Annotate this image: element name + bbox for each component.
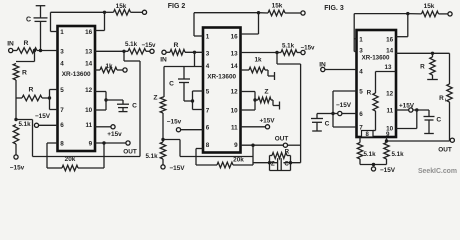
svg-text:4: 4	[60, 61, 64, 68]
svg-text:−15V: −15V	[169, 165, 185, 172]
svg-text:+15V: +15V	[259, 118, 275, 125]
svg-text:−15v: −15v	[10, 165, 25, 172]
wire pin 13	[95, 50, 126, 53]
network Z R C fig2	[270, 148, 291, 170]
svg-text:6: 6	[60, 122, 64, 129]
svg-text:Z: Z	[271, 160, 275, 167]
wire feedback top fig3	[354, 12, 409, 52]
resistor R internal U3	[367, 72, 396, 131]
svg-text:−15v: −15v	[142, 42, 156, 49]
svg-text:16: 16	[85, 29, 93, 36]
wire pin 8	[47, 143, 62, 168]
svg-text:9: 9	[386, 131, 390, 138]
capacitor C pin12	[117, 100, 137, 112]
op-amp IC U1 XR-13600	[58, 26, 96, 151]
svg-text:3: 3	[359, 47, 363, 54]
svg-text:10: 10	[85, 107, 93, 114]
resistor 5.1k pin9 fig3	[384, 137, 404, 165]
wire bias rail fig2	[163, 140, 253, 157]
watermark	[418, 168, 457, 175]
capacitor C left fig3	[311, 114, 333, 132]
terminal -15v	[10, 155, 25, 172]
svg-text:7: 7	[206, 108, 210, 115]
terminal +15v	[95, 125, 122, 138]
svg-text:R: R	[22, 70, 27, 77]
svg-text:12: 12	[231, 89, 239, 96]
terminal 15k	[142, 10, 146, 14]
svg-text:12: 12	[85, 87, 93, 94]
resistor R input fig2	[166, 42, 203, 55]
label FIG. 3	[324, 5, 344, 12]
svg-text:OUT: OUT	[275, 136, 289, 143]
svg-text:11: 11	[387, 108, 394, 115]
wire pins 5-7 bridge fig2	[191, 91, 203, 110]
svg-text:7: 7	[60, 107, 64, 114]
svg-text:XR-13600: XR-13600	[62, 71, 91, 78]
resistor 20k feedback	[62, 143, 104, 171]
wire feedback top fig2	[194, 11, 260, 36]
svg-text:14: 14	[386, 47, 394, 54]
U3 pin numbers right	[384, 36, 393, 138]
svg-text:i: i	[445, 97, 446, 102]
svg-text:10: 10	[231, 108, 239, 115]
svg-text:6: 6	[206, 125, 210, 132]
svg-text:OUT: OUT	[123, 149, 137, 156]
wire pin 10 fig3	[396, 110, 417, 129]
svg-text:−15v: −15v	[301, 45, 315, 52]
wire pin 9 output	[95, 141, 126, 144]
svg-text:XR-13600: XR-13600	[362, 55, 390, 62]
terminal -15V to pin 6	[34, 113, 57, 127]
terminal -15V pin6 fig3	[333, 102, 357, 116]
svg-text:8: 8	[206, 142, 210, 149]
svg-text:5: 5	[206, 89, 210, 96]
resistor 15k	[105, 3, 143, 15]
svg-text:5: 5	[60, 87, 64, 94]
svg-text:OUT: OUT	[438, 146, 452, 153]
resistor R input	[17, 40, 58, 53]
svg-text:5: 5	[359, 89, 363, 96]
svg-text:9: 9	[89, 141, 93, 148]
svg-text:5.1k: 5.1k	[125, 41, 138, 48]
svg-text:C: C	[325, 120, 330, 127]
terminal 15k fig3	[448, 12, 452, 16]
svg-text:9: 9	[234, 142, 238, 149]
svg-text:C: C	[169, 81, 174, 88]
svg-text:5.1k: 5.1k	[391, 151, 404, 158]
wire pin 14 fig3	[396, 52, 450, 55]
svg-text:−15V: −15V	[35, 113, 51, 120]
svg-text:13: 13	[85, 48, 93, 55]
wire pins 5-7 bridge	[50, 90, 58, 110]
wire pins 12-10 bridge	[95, 92, 123, 111]
resistor Z pin12 fig2	[255, 89, 280, 110]
pin 8 box U3	[362, 131, 374, 139]
svg-text:−15v: −15v	[167, 119, 182, 126]
svg-text:FIG. 3: FIG. 3	[324, 5, 344, 12]
svg-text:Z: Z	[264, 89, 268, 96]
terminal -15V lower fig2	[161, 165, 185, 172]
svg-text:R: R	[24, 40, 29, 47]
svg-text:5.1k: 5.1k	[18, 121, 31, 128]
node -15V bias	[14, 118, 17, 121]
resistor 1k	[95, 63, 123, 73]
svg-text:Z: Z	[153, 95, 157, 102]
U1 pin numbers right	[85, 29, 93, 148]
svg-text:FIG 2: FIG 2	[168, 3, 186, 10]
terminal -15v pin6 fig2	[167, 119, 203, 132]
input terminal IN	[7, 41, 17, 53]
svg-text:3: 3	[206, 50, 210, 57]
svg-text:14: 14	[231, 63, 239, 70]
svg-text:C: C	[284, 160, 289, 167]
terminal -15v pin13	[142, 42, 156, 54]
terminal 15k fig2	[301, 11, 305, 15]
capacitor C fig2	[169, 67, 192, 102]
resistor 5.1k pin13	[124, 41, 150, 54]
svg-text:6: 6	[359, 111, 363, 118]
svg-text:15k: 15k	[424, 3, 435, 10]
svg-text:R: R	[420, 63, 425, 70]
svg-text:−15V: −15V	[380, 167, 396, 174]
U2 pin numbers left	[206, 34, 210, 150]
svg-text:C: C	[436, 116, 441, 123]
svg-text:16: 16	[231, 34, 239, 41]
svg-text:13: 13	[231, 50, 239, 57]
svg-text:IN: IN	[7, 41, 14, 48]
resistor R vertical	[13, 64, 27, 120]
wire pins 5-7 runner fig3	[331, 91, 356, 127]
svg-text:+15v: +15v	[107, 131, 122, 138]
svg-text:C: C	[132, 102, 137, 109]
wire pin 9 OUT fig3	[387, 140, 450, 142]
svg-text:IN: IN	[160, 57, 167, 64]
resistor Ri runner fig3	[439, 53, 452, 141]
op-amp IC U2 XR-13600	[203, 28, 241, 153]
wire branch to R2	[16, 51, 35, 62]
wire pin 8 fig2	[196, 149, 217, 166]
resistor 15k fig3	[408, 3, 448, 17]
resistor 15k fig2	[259, 3, 301, 16]
resistor 20k fig2	[217, 145, 253, 168]
resistor 5.1k bias	[13, 121, 31, 155]
svg-text:1: 1	[359, 36, 363, 43]
resistor 5.1k pin8 fig3	[357, 137, 376, 165]
svg-text:R: R	[439, 95, 444, 102]
wire pin 9 fig2	[241, 144, 284, 147]
terminal -15V bottom fig3	[360, 163, 396, 174]
wire pin 13 fig2	[241, 51, 279, 54]
resistor 5.1k lower fig2	[145, 140, 165, 165]
svg-text:4: 4	[206, 63, 210, 70]
svg-text:15k: 15k	[116, 3, 127, 10]
svg-text:3: 3	[60, 48, 64, 55]
op-amp IC U3 XR-13600	[357, 30, 397, 137]
svg-text:R: R	[367, 90, 372, 97]
svg-text:SeekIC.com: SeekIC.com	[418, 168, 457, 175]
capacitor C1	[26, 6, 48, 51]
resistor 1k fig2	[241, 57, 275, 81]
terminal OUT	[123, 141, 137, 156]
terminal pin14	[123, 68, 127, 72]
label FIG 2	[168, 3, 186, 10]
svg-text:12: 12	[386, 91, 394, 98]
svg-text:5.1k: 5.1k	[145, 153, 158, 160]
U1 pin numbers left	[60, 29, 64, 148]
input terminal IN fig2	[160, 50, 167, 63]
svg-text:8: 8	[60, 141, 64, 148]
svg-text:11: 11	[231, 125, 238, 132]
svg-text:R: R	[174, 42, 179, 49]
svg-text:16: 16	[386, 36, 394, 43]
svg-text:1: 1	[206, 34, 210, 41]
terminal OUT fig2	[275, 136, 301, 148]
wire pins 12-10 bridge fig2	[241, 92, 257, 111]
svg-text:1k: 1k	[254, 57, 262, 64]
wire to pin 4 fig2	[164, 52, 203, 97]
terminal -15v pin13 fig2	[301, 45, 315, 55]
svg-text:20k: 20k	[233, 157, 244, 164]
resistor R hanging fig3	[420, 53, 438, 79]
capacitor C right fig3	[424, 110, 442, 134]
svg-text:20k: 20k	[65, 156, 76, 163]
svg-text:5.1k: 5.1k	[363, 151, 376, 158]
wire feedback top	[51, 11, 107, 32]
svg-text:15k: 15k	[272, 3, 283, 10]
U2 pin numbers right	[231, 34, 239, 150]
svg-text:XR-13600: XR-13600	[207, 74, 236, 81]
terminal OUT fig3	[438, 138, 454, 153]
resistor Z fig2	[153, 95, 165, 142]
svg-text:−15V: −15V	[336, 102, 352, 109]
wire -15V rail	[16, 51, 140, 156]
input terminal IN fig3	[319, 62, 356, 72]
svg-text:13: 13	[384, 64, 392, 71]
U3 pin numbers left	[359, 36, 363, 131]
resistor 5.1k pin13 fig2	[277, 43, 301, 56]
svg-text:4: 4	[359, 69, 363, 76]
terminal +15V fig2	[241, 118, 276, 129]
svg-text:11: 11	[86, 122, 93, 129]
capacitor C in ZRC fig2	[253, 158, 301, 171]
svg-text:1: 1	[60, 29, 64, 36]
resistor R to bias bridge	[16, 87, 51, 101]
node input junction	[33, 49, 42, 52]
terminal +15V fig3	[396, 103, 429, 113]
svg-text:14: 14	[85, 61, 93, 68]
wire right runner fig2	[277, 53, 301, 163]
svg-text:C: C	[26, 17, 31, 24]
svg-text:R: R	[29, 87, 34, 94]
svg-text:5.1k: 5.1k	[282, 43, 295, 50]
